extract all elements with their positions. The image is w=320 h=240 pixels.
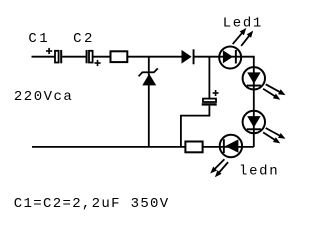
capacitor C3 [202,90,219,106]
wire bottom rail [32,146,185,148]
capacitor C3 branch wire lower with jog to bottom rail [181,106,210,147]
LED ledn [220,135,242,157]
wire D1 to Led1 and corner to LED2 [195,56,255,58]
LED Led3 [243,111,265,133]
svg-text:C1: C1 [28,31,47,47]
svg-text:220Vca: 220Vca [14,89,72,105]
svg-text:Led1: Led1 [223,15,262,31]
wire C2 to R1 [93,56,110,58]
wire LED column vertical [253,57,255,147]
wire bottom to LED ledn [204,146,254,148]
wire R1 to diode D1 [128,56,182,58]
ledn arrow 2 [215,162,228,177]
wire top rail left lead to C1 [32,56,56,58]
LED Led1 [219,47,241,69]
zener diode DZ [139,68,158,85]
Led3 arrow 1 [266,128,286,139]
ledn arrow 1 [210,159,224,173]
svg-text:C1=C2=2,2uF 350V: C1=C2=2,2uF 350V [14,196,169,212]
Led2 arrow 2 [263,89,280,100]
capacitor C3 branch wire upper [208,57,210,99]
capacitor C2 [86,50,101,66]
zener diode DZ vertical branch wire [148,57,150,147]
wire C1 to C2 [62,56,86,58]
svg-text:C2: C2 [73,31,92,47]
capacitor C1 [46,48,62,63]
Led3 arrow 2 [263,132,280,143]
diode D1 [182,49,195,64]
resistor R1 [111,51,128,62]
Led1 arrow 2 [241,31,253,46]
svg-text:ledn: ledn [239,164,278,180]
resistor R2 [185,142,202,153]
LED Led2 [243,67,265,89]
Led1 arrow 1 [233,28,247,44]
Led2 arrow 1 [266,84,286,95]
